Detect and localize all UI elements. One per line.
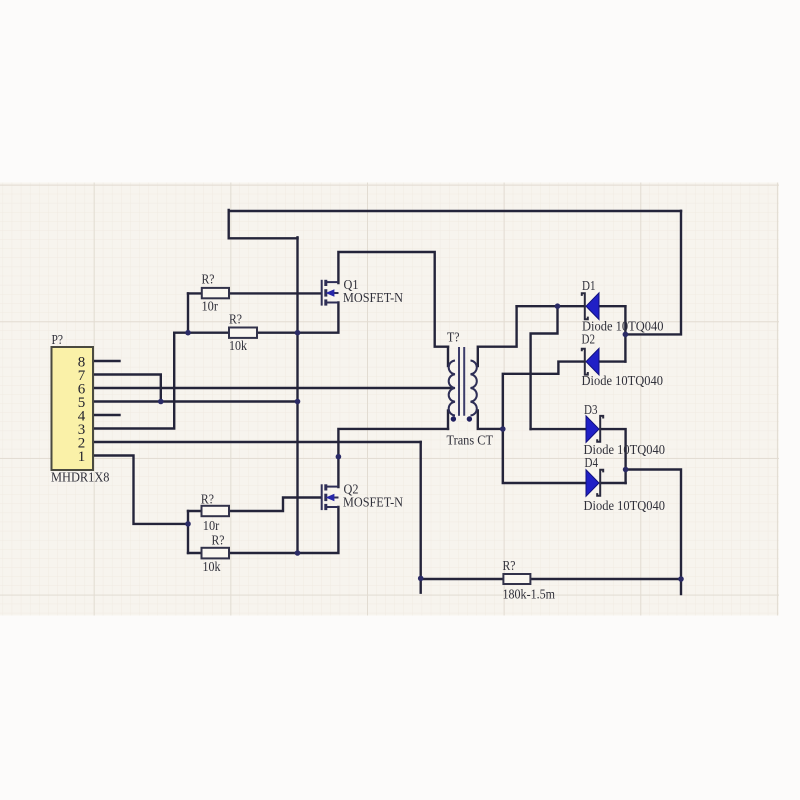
- wire 10k top row: [188, 332, 229, 334]
- connector P? MHDR1X8: [51, 333, 110, 485]
- wire D1-D2 right column: [624, 306, 626, 361]
- diode D4 Diode 10TQ040: [584, 456, 666, 514]
- wire 10k bottom left lead: [188, 552, 202, 554]
- transistor Q2 MOSFET-N: [321, 483, 403, 511]
- node bus/pin5 junction: [295, 399, 301, 405]
- svg-text:R?: R?: [212, 534, 225, 549]
- wire 10k bottom to Q2 source: [229, 507, 338, 553]
- resistor R? 10k (top): [229, 313, 257, 355]
- resistor R? 10r (bottom): [201, 492, 229, 534]
- node D1-D2 column junction: [623, 332, 629, 338]
- wire D1 anode left: [517, 305, 585, 307]
- wire x188 bottom vertical: [187, 511, 189, 553]
- wire pin6 center tap: [93, 387, 451, 389]
- svg-text:180k-1.5m: 180k-1.5m: [503, 587, 556, 602]
- svg-text:R?: R?: [202, 273, 215, 288]
- wire 10r bottom to Q2 gate: [229, 498, 321, 512]
- wire pin3: [93, 333, 188, 429]
- svg-text:Trans CT: Trans CT: [447, 434, 494, 449]
- svg-text:Diode 10TQ040: Diode 10TQ040: [582, 374, 664, 389]
- node output resistor right junction: [678, 576, 684, 582]
- node pin1/10r bottom junction: [185, 521, 191, 527]
- wire 10r top leads: [188, 292, 202, 294]
- transistor Q1 MOSFET-N: [321, 278, 403, 306]
- svg-text:10r: 10r: [202, 300, 219, 315]
- wire pin2 drop: [420, 442, 422, 593]
- wire Q2 drain to transformer: [338, 429, 448, 487]
- wire pin4 stub: [93, 414, 120, 416]
- wire pin8 stub: [93, 360, 120, 362]
- svg-text:10k: 10k: [229, 339, 247, 354]
- wire Q1 drain: [338, 252, 448, 347]
- svg-text:10r: 10r: [203, 519, 220, 534]
- node output resistor left junction: [418, 576, 424, 582]
- wire pin1: [93, 456, 188, 524]
- wire D1 right to column: [599, 305, 625, 307]
- wire CT node down to D4: [503, 429, 586, 483]
- wire top rail left drop: [229, 210, 298, 238]
- resistor R? 180k-1.5m: [503, 559, 556, 602]
- wire 10r top left vertical: [187, 293, 189, 332]
- wire output to resistor column: [626, 470, 681, 595]
- svg-text:P?: P?: [52, 333, 64, 348]
- svg-text:Diode 10TQ040: Diode 10TQ040: [584, 499, 666, 514]
- wire top rail: [229, 210, 681, 212]
- svg-text:D2: D2: [582, 332, 596, 347]
- transformer T? Trans CT: [447, 331, 494, 449]
- wire D1 node drop: [531, 306, 558, 429]
- wire 10k top right to Q1 source: [257, 303, 338, 333]
- wire 10r top to Q1 gate: [229, 292, 321, 294]
- node Q2 drain junction: [336, 454, 342, 460]
- node D3-D4 output junction: [623, 467, 629, 473]
- wire output resistor right: [530, 578, 681, 580]
- wire D2 right: [599, 360, 625, 362]
- diode D1 Diode 10TQ040: [582, 279, 664, 334]
- wire primary top lead: [447, 347, 449, 366]
- svg-text:D1: D1: [582, 279, 596, 294]
- resistor R? 10r (top): [202, 273, 230, 315]
- node D1 anode junction: [555, 303, 561, 309]
- wire primary bottom lead: [447, 411, 449, 429]
- svg-text:MOSFET-N: MOSFET-N: [343, 496, 403, 511]
- wire output resistor left: [421, 578, 504, 580]
- svg-text:T?: T?: [447, 331, 460, 346]
- wire pin5: [93, 400, 298, 402]
- wire secondary bottom lead: [478, 411, 503, 429]
- svg-text:MHDR1X8: MHDR1X8: [51, 471, 110, 486]
- svg-text:MOSFET-N: MOSFET-N: [343, 291, 403, 306]
- svg-text:R?: R?: [229, 313, 242, 328]
- svg-text:10k: 10k: [203, 560, 221, 575]
- node bus/10k bottom junction: [295, 550, 301, 556]
- schematic sheet background: [0, 183, 779, 616]
- node 10r/10k top left junction: [185, 330, 191, 336]
- wire long vertical bus x297: [296, 237, 298, 553]
- wire D4 right: [601, 482, 626, 484]
- wire D3 left: [531, 428, 586, 430]
- wire pin7: [93, 375, 161, 402]
- svg-text:D4: D4: [585, 456, 599, 471]
- wire D2 left: [503, 362, 585, 429]
- wire pin2: [93, 441, 421, 443]
- svg-text:R?: R?: [503, 559, 516, 574]
- svg-text:D3: D3: [584, 403, 598, 418]
- wire D3 right: [601, 429, 626, 483]
- wire top rail right drop: [625, 211, 681, 335]
- node center tap junction: [500, 426, 506, 432]
- diode D2 Diode 10TQ040: [582, 332, 664, 389]
- wire secondary top lead: [478, 306, 517, 366]
- node pin7-pin5 junction: [158, 399, 164, 405]
- svg-text:1: 1: [78, 449, 86, 465]
- diode D3 Diode 10TQ040: [584, 403, 666, 458]
- node bus/10k top junction: [295, 330, 301, 336]
- svg-text:R?: R?: [201, 492, 214, 507]
- wire 10r bottom left lead: [188, 510, 202, 512]
- resistor R? 10k (bottom): [202, 534, 230, 576]
